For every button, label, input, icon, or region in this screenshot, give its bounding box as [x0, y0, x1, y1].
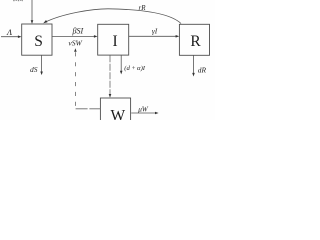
- svg-text:dS: dS: [30, 65, 38, 74]
- svg-text:S: S: [34, 33, 43, 50]
- svg-text:rR: rR: [139, 4, 147, 12]
- svg-text:(d + α)I: (d + α)I: [124, 65, 145, 72]
- svg-text:W: W: [110, 107, 125, 120]
- svg-text:R: R: [190, 33, 201, 50]
- svg-text:Λ: Λ: [6, 28, 12, 37]
- svg-text:dR: dR: [198, 66, 207, 75]
- svg-text:γI: γI: [152, 27, 158, 36]
- svg-text:νSW: νSW: [68, 39, 82, 48]
- svg-text:βSI: βSI: [71, 27, 83, 36]
- svg-text:μW: μW: [138, 106, 149, 114]
- svg-text:I: I: [113, 33, 118, 50]
